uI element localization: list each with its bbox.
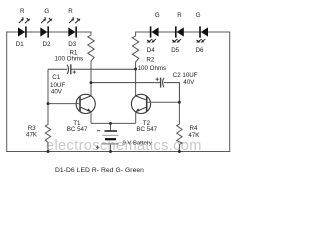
svg-text:D2: D2 <box>43 41 51 48</box>
svg-text:R: R <box>20 8 25 15</box>
resistor R2 <box>132 32 138 96</box>
node dot battery bottom <box>109 150 112 153</box>
LED D2 <box>40 18 52 37</box>
resistor R3 <box>45 69 50 151</box>
node dot T2 base <box>178 101 181 104</box>
svg-text:G: G <box>155 12 160 19</box>
svg-text:100 Ohms: 100 Ohms <box>55 55 84 62</box>
svg-text:9 V Battery: 9 V Battery <box>123 140 152 146</box>
transistor T2 <box>131 94 150 113</box>
wire emitter rail <box>91 122 136 124</box>
LED D4 <box>147 26 159 42</box>
LED D6 <box>196 26 208 42</box>
node dot T1 base <box>47 102 50 105</box>
wire left rail <box>6 32 8 152</box>
svg-text:D1-D6 LED R- Red G- Green: D1-D6 LED R- Red G- Green <box>55 167 144 174</box>
LED D5 <box>172 26 184 42</box>
svg-text:40V: 40V <box>183 79 195 86</box>
resistor R1 <box>88 32 94 96</box>
svg-text:D6: D6 <box>196 47 204 54</box>
svg-text:R: R <box>68 8 73 15</box>
svg-text:D1: D1 <box>16 41 24 48</box>
node dot R3 bottom <box>47 150 50 153</box>
wire T2 base <box>147 101 180 103</box>
resistor R4 <box>177 102 182 152</box>
svg-text:100 Ohms: 100 Ohms <box>138 65 167 72</box>
svg-text:D4: D4 <box>147 47 155 54</box>
battery minus sign <box>97 130 100 132</box>
svg-text:47K: 47K <box>26 131 38 138</box>
battery plus sign <box>96 146 99 149</box>
capacitor C2 <box>91 78 179 103</box>
svg-text:D3: D3 <box>68 41 76 48</box>
svg-text:47K: 47K <box>188 132 200 139</box>
svg-text:40V: 40V <box>51 89 63 96</box>
wire T1 emitter <box>90 112 92 124</box>
svg-text:C1: C1 <box>52 74 60 81</box>
battery BT1 9V <box>102 123 119 151</box>
svg-text:R: R <box>177 12 182 19</box>
LED D1 <box>18 18 30 37</box>
svg-text:BC 547: BC 547 <box>67 126 88 133</box>
wire T2 emitter <box>135 112 137 124</box>
wire right rail <box>229 32 231 152</box>
svg-text:R4: R4 <box>190 125 198 132</box>
node dot R1/C2 <box>90 81 93 84</box>
wire bottom rail <box>7 151 230 153</box>
node dot R4 bottom <box>178 150 181 153</box>
LED D3 <box>68 18 80 37</box>
node dot battery top <box>109 122 112 125</box>
svg-text:G: G <box>44 8 49 15</box>
wire top-left rail <box>7 31 91 33</box>
wire T1 base <box>48 103 80 105</box>
svg-text:BC 547: BC 547 <box>136 126 157 133</box>
node dot R2/C1 <box>134 68 137 71</box>
wire top-right rail <box>136 31 230 33</box>
svg-text:D5: D5 <box>171 47 179 54</box>
svg-text:G: G <box>196 12 201 19</box>
svg-text:R2: R2 <box>146 56 154 63</box>
transistor T1 <box>76 94 95 113</box>
capacitor C1 <box>48 64 136 74</box>
